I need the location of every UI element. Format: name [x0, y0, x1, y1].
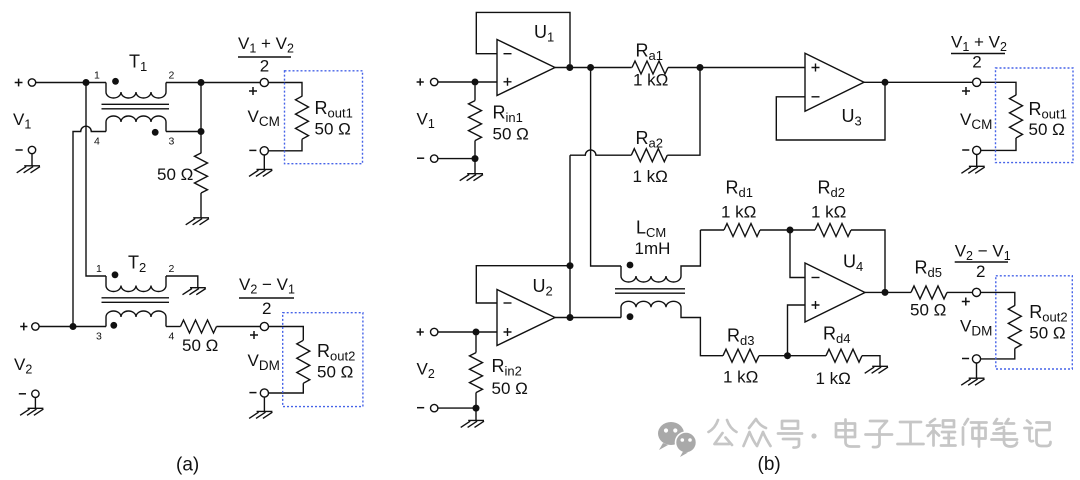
svg-text:1: 1 — [94, 70, 100, 82]
wire branch U1 out down to LCM top — [591, 68, 621, 267]
choke LCM bottom winding — [621, 301, 723, 355]
wire U2 output — [555, 317, 621, 319]
ground below VDM minus — [263, 397, 265, 411]
node U1 output feedback — [566, 64, 573, 71]
wire Ra2 left with hop — [570, 150, 631, 155]
wire T1 pin4 left with hop — [73, 126, 106, 326]
node at V1+ / T1 pin1 — [83, 79, 90, 86]
svg-text:V1 + V2: V1 + V2 — [238, 34, 294, 56]
char dian — [836, 420, 859, 447]
wire V1+ to U1 plus input — [438, 81, 497, 83]
wire Rd5 to VDM terminal — [947, 291, 973, 293]
svg-text:3: 3 — [169, 136, 175, 148]
svg-text:2: 2 — [169, 70, 175, 82]
transformer T1 secondary winding — [106, 116, 166, 132]
ground below V2 minus — [34, 398, 36, 409]
node Rin2 top — [473, 329, 480, 336]
wire V1+ to node — [36, 82, 86, 84]
svg-text:4: 4 — [169, 331, 175, 343]
resistor Rd5 — [911, 286, 947, 299]
VCM minus terminal — [260, 147, 268, 155]
wire VDM+ into load box (b) — [981, 292, 1015, 305]
svg-text:V2 − V1: V2 − V1 — [239, 275, 295, 297]
wire Rd1 to junction — [760, 229, 815, 231]
wire junction up to U4 plus input — [788, 305, 806, 356]
VDM minus terminal — [260, 389, 268, 397]
wire Rd4 to ground — [862, 356, 880, 366]
wire Rout2 to VDM minus (b) — [981, 349, 1015, 359]
svg-text:1 kΩ: 1 kΩ — [816, 369, 851, 388]
svg-text:50 Ω: 50 Ω — [315, 120, 351, 139]
wire VCM+ into load box (b) — [981, 82, 1016, 95]
char shi — [963, 419, 987, 447]
wire node to T1 pin1 — [86, 82, 106, 84]
wire T1 pin3 to node — [166, 131, 201, 133]
resistor Rout2 — [297, 340, 310, 383]
svg-text:(b): (b) — [758, 454, 781, 475]
LCM core — [615, 289, 685, 293]
middle dot — [811, 433, 816, 438]
transformer T1 primary winding — [106, 83, 166, 99]
VDM plus terminal (b) — [972, 288, 980, 296]
source V1 minus terminal (b) — [417, 157, 424, 159]
char ji — [1025, 421, 1051, 447]
svg-text:(a): (a) — [176, 455, 199, 476]
wire U1 output — [555, 67, 632, 69]
svg-text:50 Ω: 50 Ω — [493, 125, 529, 144]
resistor Rout1 — [296, 96, 309, 139]
char hao — [778, 421, 802, 448]
VCM minus terminal (b) — [973, 146, 981, 154]
T2 core — [102, 298, 170, 303]
resistor Rd3 — [723, 349, 759, 362]
wire Ra2 vertical to U2 output — [569, 155, 571, 266]
choke LCM top winding — [621, 230, 700, 282]
U2 feedback loop — [476, 266, 570, 303]
node U4 output — [882, 289, 889, 296]
source V1 minus terminal — [16, 149, 23, 151]
wire Rout2 to VDM minus — [269, 383, 304, 393]
resistor 50ohm under T1 — [195, 153, 208, 193]
resistor Ra1 — [632, 61, 668, 74]
svg-text:V1 + V2: V1 + V2 — [951, 33, 1007, 55]
ground below VDM minus (b) — [976, 363, 978, 378]
char zi — [866, 421, 893, 447]
wire feedback node down to output — [569, 266, 571, 318]
node Rd3/Rd4 junction — [784, 352, 791, 359]
dashed load box Rout2 — [283, 313, 363, 407]
svg-text:2: 2 — [169, 263, 175, 275]
VCM plus terminal — [260, 78, 268, 86]
node T1 pin3 column — [198, 128, 205, 135]
wire V1- to Rin1 bottom — [438, 158, 475, 160]
LCM bottom phase dot — [627, 313, 634, 320]
dashed load box Rout1 (b) — [996, 68, 1074, 163]
node Ra1/Ra2 junction — [697, 64, 704, 71]
wire V2+ to T2 pin3 — [39, 326, 106, 328]
svg-text:3: 3 — [96, 331, 102, 343]
svg-text:2: 2 — [260, 56, 269, 75]
char gong — [709, 420, 737, 445]
LCM top phase dot — [627, 262, 634, 269]
ground after Rd4 — [865, 366, 888, 373]
wire Rd2 to U4 output feedback — [851, 230, 885, 292]
resistor Rd2 — [815, 224, 851, 237]
resistor Rout1 (b) — [1010, 95, 1023, 138]
svg-text:1 kΩ: 1 kΩ — [721, 203, 756, 222]
node T1 pin2 column top — [198, 79, 205, 86]
svg-text:2: 2 — [976, 262, 985, 281]
T2 secondary phase dot — [110, 322, 117, 329]
op-amp U2 — [497, 290, 555, 346]
wire resistor to ground — [200, 193, 202, 218]
ground at T2 pin2 — [183, 288, 206, 295]
svg-text:1 kΩ: 1 kΩ — [811, 203, 846, 222]
source V2 minus terminal (b) — [417, 407, 424, 409]
T1 primary phase dot — [112, 78, 119, 85]
wire T2 pin4 to series resistor — [166, 326, 181, 328]
svg-text:50 Ω: 50 Ω — [492, 379, 528, 398]
wire T1 pin2 to node — [166, 82, 201, 84]
node V2 line — [70, 323, 77, 330]
T2 primary phase dot — [112, 271, 119, 278]
ground below Rin2 — [475, 408, 477, 420]
svg-text:1 kΩ: 1 kΩ — [633, 71, 668, 90]
source V1 plus terminal (b) — [417, 78, 424, 85]
wire resistor to VDM terminal — [217, 326, 261, 328]
T1 secondary phase dot — [152, 129, 159, 136]
op-amp U1 — [497, 40, 555, 96]
watermark text (stylized CJK strokes) — [709, 419, 1051, 448]
wire Rout1 to VCM minus — [268, 139, 302, 151]
wire vertical node column — [200, 83, 202, 154]
U1 feedback loop — [476, 12, 570, 64]
op-amp U3 — [805, 53, 864, 111]
char cheng — [927, 419, 956, 446]
svg-text:2: 2 — [262, 299, 271, 318]
char bi — [992, 419, 1018, 447]
source V2 plus terminal — [20, 323, 27, 331]
VDM plus terminal — [260, 322, 268, 330]
svg-text:2: 2 — [972, 52, 981, 71]
U3 feedback loop — [776, 82, 885, 140]
wire Ra1 to U3 input — [668, 67, 805, 69]
wire VCM+ into load box — [268, 83, 302, 97]
node Rin1 bottom — [472, 155, 479, 162]
wire V2- to Rin2 bottom — [438, 407, 476, 409]
ground under 50ohm — [186, 218, 209, 225]
wire vertical V1 node down to T2 pin1 — [86, 83, 106, 277]
transformer T2 secondary winding — [106, 311, 166, 327]
T1 core — [102, 104, 170, 109]
svg-text:V2 − V1: V2 − V1 — [955, 242, 1011, 264]
node Rin1 top — [472, 79, 479, 86]
dashed load box Rout1 — [285, 71, 363, 164]
resistor Rout2 (b) — [1008, 306, 1021, 349]
svg-text:50 Ω: 50 Ω — [182, 336, 218, 355]
resistor Rin1 — [474, 86, 476, 101]
wechat icon bubbles — [658, 422, 697, 457]
resistor Rd1 — [724, 224, 760, 237]
ground below V1 minus — [31, 154, 33, 166]
wire junction down to U4 minus input — [790, 230, 805, 278]
svg-text:1mH: 1mH — [635, 239, 671, 258]
svg-text:50 Ω: 50 Ω — [910, 301, 946, 320]
svg-text:50 Ω: 50 Ω — [317, 363, 353, 382]
node U2 feedback junction — [567, 262, 574, 269]
wire Rout1 to VCM minus (b) — [981, 138, 1016, 150]
op-amp U4 — [805, 263, 865, 322]
svg-text:4: 4 — [94, 136, 100, 148]
node U3 output feedback tap — [882, 79, 889, 86]
VDM minus terminal (b) — [972, 355, 980, 363]
ground below VCM minus (b) — [976, 155, 978, 167]
wire Ra2 right up to Ra1 junction — [667, 68, 700, 156]
wire U4 output — [865, 291, 911, 293]
svg-text:1 kΩ: 1 kΩ — [723, 368, 758, 387]
node Rd1/Rd2 junction — [787, 227, 794, 234]
node Rin2 bottom — [473, 405, 480, 412]
resistor Rin2 — [475, 336, 477, 353]
resistor 50ohm series — [181, 320, 217, 333]
char gongwork — [898, 422, 924, 444]
wire U3 output — [864, 81, 973, 83]
dashed load box Rout2 (b) — [996, 276, 1073, 369]
svg-text:1 kΩ: 1 kΩ — [633, 167, 668, 186]
resistor Ra2 — [631, 149, 667, 162]
svg-text:50 Ω: 50 Ω — [1029, 324, 1065, 343]
svg-text:50 Ω: 50 Ω — [1029, 120, 1065, 139]
wire T1 pin2 node to VCM terminal — [201, 82, 260, 84]
resistor Rd4 — [826, 349, 862, 362]
source V2 plus terminal (b) — [417, 328, 424, 335]
svg-text:50 Ω: 50 Ω — [157, 165, 193, 184]
ground below VCM minus — [263, 155, 265, 169]
node U2 output — [567, 314, 574, 321]
wire VDM+ into load box — [269, 327, 304, 341]
ground below Rin1 — [474, 159, 476, 174]
svg-text:1: 1 — [96, 263, 102, 275]
wire T2 pin2 to ground — [166, 276, 198, 288]
VCM plus terminal (b) — [973, 78, 981, 86]
wire Rd3 to junction — [759, 355, 826, 357]
transformer T2 primary winding — [106, 276, 166, 292]
wire LCM top to Rd1 — [700, 229, 724, 231]
node U1 output branch — [587, 64, 594, 71]
wire V2+ to U2 plus input — [438, 331, 497, 333]
source V2 minus terminal — [19, 393, 26, 395]
source V1 plus terminal — [15, 79, 23, 87]
char zhong — [744, 419, 771, 446]
